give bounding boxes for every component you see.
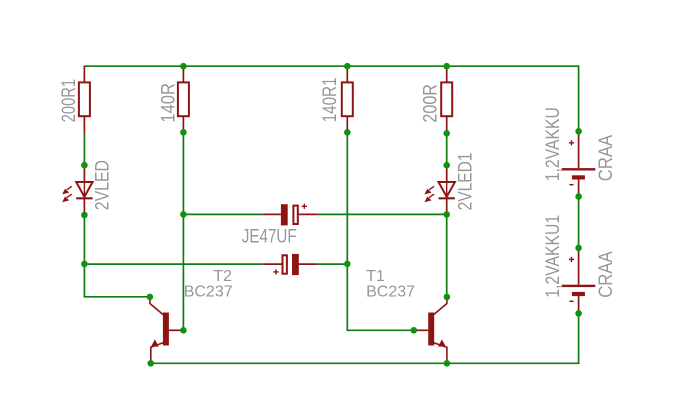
svg-text:JE47UF: JE47UF [242,227,297,248]
wire 200R1 to 2VLED anode [83,133,85,165]
svg-text:200R: 200R [420,84,441,123]
junction T2 emitter [148,360,155,367]
junction 200R bottom [443,130,450,137]
junction T1 base [411,327,418,334]
transistor T2 BC237 (mirrored) [150,298,184,364]
svg-text:BC237: BC237 [184,284,233,301]
wire right supply drop to battery [578,65,580,131]
label 200R [420,84,441,123]
junction battery2 minus [575,310,582,317]
wire cap2 left junction to capacitor C2 [84,263,262,265]
svg-text:T2: T2 [213,268,232,285]
svg-text:2VLED1: 2VLED1 [456,152,477,210]
capacitor C2 [263,254,317,275]
label T1 [366,268,385,285]
label JE47UF [242,227,297,248]
wire bottom ground rail [151,313,579,363]
LED 2VLED [62,165,93,215]
junction T2 base [180,327,187,334]
svg-text:1,2VAKKU: 1,2VAKKU [543,107,564,181]
wire 200R to 2VLED1 anode [446,133,448,165]
svg-text:CRAA: CRAA [596,135,617,182]
junction 140R bottom [180,129,187,136]
wire 2VLED cathode to cap2 left and T2 collector [84,215,149,297]
label T1 BC237 [366,284,415,301]
label 200R1 [59,79,80,122]
resistor 200R1 [79,66,90,133]
junction battery2 plus [575,245,582,252]
junction T2 collector [147,294,154,301]
wire top supply rail [84,65,580,67]
label T2 BC237 [184,284,233,301]
LED 2VLED1 [424,165,455,215]
junction cap2 left [81,261,88,268]
wire 2VLED1 cathode to T1 collector [446,214,448,297]
junction cap2 right [344,261,351,268]
wire 140R1 to cap2 junction and T1 base [347,132,414,330]
junction 2VLED cathode [81,212,88,219]
wire capacitor C2 to 140R1 junction [317,263,348,265]
label 140R1 [320,78,341,123]
junction node B cap1 left [180,211,187,218]
label T2 [213,268,232,285]
capacitor JE47UF [263,204,317,226]
junction 2VLED anode [81,162,88,169]
battery 1,2VAKKU CRAA [562,131,596,196]
svg-text:140R1: 140R1 [320,78,341,123]
label 1,2VAKKU [543,107,564,181]
label CRAA (VAKKU) [596,135,617,182]
svg-text:2VLED: 2VLED [93,160,114,210]
resistor 140R [178,66,189,132]
junction 200R top [443,63,450,70]
junction 2VLED1 anode [443,162,450,169]
svg-text:BC237: BC237 [366,284,415,301]
junction 140R1 top [344,63,351,70]
junction 140R1 bottom [344,129,351,136]
wire 140R to T2 base [182,132,184,330]
battery 1,2VAKKU1 CRAA [562,248,596,313]
junction T1 collector [444,294,451,301]
junction battery1 plus [575,128,582,135]
junction 2VLED1 cathode node A [443,211,450,218]
wire node B to capacitor JE47UF left [183,213,262,215]
resistor 140R1 [342,66,353,132]
svg-text:200R1: 200R1 [59,79,80,122]
svg-text:1,2VAKKU1: 1,2VAKKU1 [543,215,564,298]
label 140R [158,83,179,123]
label CRAA (VAKKU1) [596,251,617,298]
junction 140R top [180,63,187,70]
resistor 200R [441,66,452,133]
label 2VLED1 [456,152,477,210]
wire battery series link [578,197,580,248]
wire capacitor JE47UF right to 2VLED1 cathode [317,213,447,215]
svg-text:T1: T1 [366,268,385,285]
transistor T1 BC237 [414,298,447,364]
label 1,2VAKKU1 [543,215,564,298]
svg-text:140R: 140R [158,83,179,123]
label 2VLED [93,160,114,210]
svg-text:CRAA: CRAA [596,251,617,298]
junction T1 emitter [444,360,451,367]
junction battery1 minus [575,193,582,200]
